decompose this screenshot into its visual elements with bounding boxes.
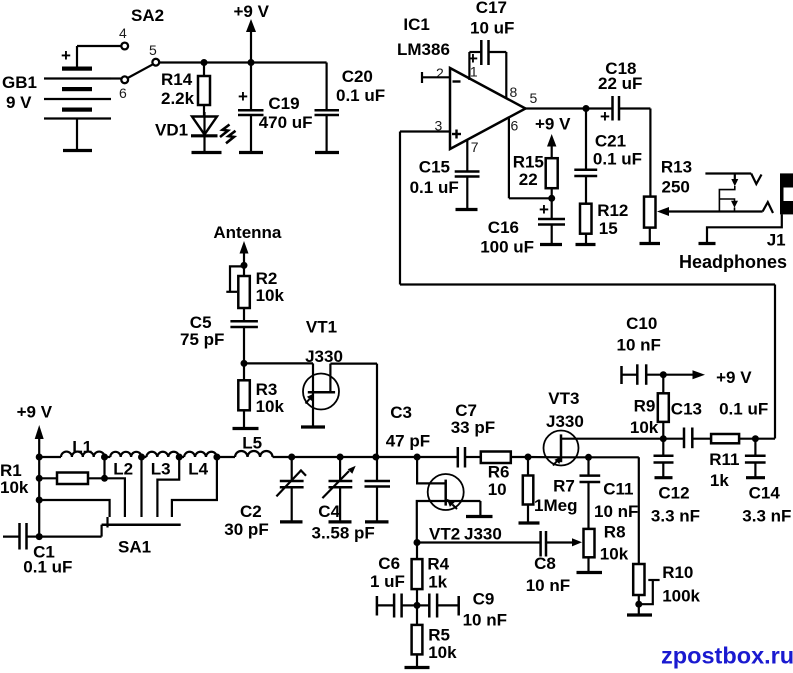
svg-text:1 uF: 1 uF [370,572,405,591]
ground R12 [576,243,596,246]
wire rail C4-C3 [340,456,376,458]
svg-text:22 uF: 22 uF [598,74,642,93]
svg-text:J1: J1 [767,231,786,250]
svg-text:C10: C10 [626,314,657,333]
wire tap1 L1/L2 to SA1 [105,457,125,517]
resistor R11 [709,434,775,490]
ground C16 [540,243,562,246]
wire rail R7-VT3 [528,456,560,458]
capacitor C17 [468,0,514,68]
svg-text:10 nF: 10 nF [594,502,638,521]
node R9 / C13 / C12 [660,435,667,442]
svg-text:470 uF: 470 uF [259,113,313,132]
capacitor C19 [238,63,313,153]
node rail R1 [36,475,43,482]
wire rail C2-C4 [292,456,340,458]
svg-text:22: 22 [519,170,538,189]
pin 2 stub [422,65,450,83]
node tank C3 / VT1 drain [372,454,379,461]
svg-text:5: 5 [149,42,157,58]
svg-text:3..58 pF: 3..58 pF [312,523,375,542]
wire rail VT2-C7 [417,456,458,458]
capacitor C12 [651,439,700,526]
svg-text:250: 250 [662,177,690,196]
capacitor C3 [365,403,431,522]
resistor R6 [481,452,528,499]
+9 V supply arrow left [17,403,53,537]
capacitor C13 [663,400,768,449]
pin 3 wire [400,118,450,134]
ground C2 [280,520,303,523]
resistor R10 [633,457,700,615]
node VT3 source / C11 [585,454,592,461]
node +9V rail top [248,59,255,66]
ground VD1 [192,151,222,154]
svg-text:+9 V: +9 V [716,368,752,387]
svg-text:10 uF: 10 uF [470,19,514,38]
svg-text:C21: C21 [595,132,626,151]
node C10 / R9 [660,371,667,378]
svg-text:J330: J330 [546,412,584,431]
svg-text:2: 2 [436,65,444,81]
svg-text:0.1 uF: 0.1 uF [336,86,385,105]
ground R8 [577,571,603,574]
svg-text:C13: C13 [671,400,702,419]
svg-text:+: + [61,46,71,65]
svg-text:R4: R4 [427,554,449,573]
inductor L1 [39,438,104,458]
node L3/L4 tap [176,454,183,461]
capacitor C5 [180,313,258,363]
node R4 / C6 / C9 / R5 [414,602,421,609]
node tank C2 [288,454,295,461]
svg-text:+: + [539,200,549,219]
svg-text:C16: C16 [488,218,519,237]
svg-text:10 nF: 10 nF [463,611,507,630]
svg-text:C17: C17 [476,0,507,17]
ground C3 [365,520,389,523]
+9 V supply arrow right [663,368,752,387]
svg-text:10k: 10k [630,418,659,437]
capacitor C16 [480,198,565,256]
wire tap2 L2/L3 to SA1 [140,457,142,517]
node IC1 output [583,105,590,112]
wire C1 to SA1 wiper [39,535,101,537]
svg-text:SA1: SA1 [118,537,151,556]
svg-text:VD1: VD1 [155,121,188,140]
svg-text:1k: 1k [710,471,729,490]
headphone jack J1 [679,173,793,272]
inductor L5 [217,434,292,457]
resistor R5 [412,605,458,667]
wire tap3 L3/L4 to SA1 [157,457,179,517]
node R10 bottom [635,601,642,608]
svg-text:J330: J330 [464,525,502,544]
capacitor C11 [580,457,639,529]
svg-text:L2: L2 [113,460,133,479]
svg-text:1Meg: 1Meg [534,496,577,515]
svg-text:R7: R7 [553,476,575,495]
pin 6 lead [509,117,552,198]
node rail tap [36,497,43,504]
svg-text:9 V: 9 V [6,93,32,112]
svg-text:SA2: SA2 [131,6,164,25]
variable capacitor C4 [312,457,375,542]
resistor R4 [412,543,450,606]
capacitor C10 [617,314,664,385]
node L2/L3 tap [138,454,145,461]
svg-text:+: + [600,107,610,126]
resistor R14 [161,63,210,117]
capacitor C1 [3,523,72,576]
capacitor C9 [417,590,507,630]
wire tap rail to SA1 [39,500,109,517]
svg-text:VT2: VT2 [429,525,460,544]
svg-text:VT1: VT1 [306,317,337,336]
svg-text:7: 7 [471,139,479,155]
svg-text:75 pF: 75 pF [180,330,224,349]
capacitor C18 [586,59,650,126]
svg-text:33 pF: 33 pF [451,418,495,437]
svg-text:Headphones: Headphones [679,252,787,272]
svg-text:R12: R12 [597,201,628,220]
ground R10 [627,613,652,616]
svg-text:C3: C3 [390,403,412,422]
svg-text:6: 6 [119,85,127,101]
ground C4 [329,520,352,523]
resistor R15 [513,153,558,199]
svg-text:2.2k: 2.2k [161,89,195,108]
svg-text:C9: C9 [473,590,495,609]
ground C19 [239,151,263,154]
ground C15 [456,208,478,211]
potentiometer R13 [644,158,763,244]
svg-text:10k: 10k [600,544,629,563]
svg-text:100 uF: 100 uF [480,238,534,257]
pin 5 output wire [526,90,587,109]
svg-text:8: 8 [510,84,518,100]
pin 1 lead [469,52,478,80]
svg-text:R5: R5 [428,625,450,644]
svg-text:0.1 uF: 0.1 uF [410,178,459,197]
svg-text:R15: R15 [513,153,544,172]
wire rail C3-VT2 [376,456,417,458]
svg-text:3.3 nF: 3.3 nF [651,507,700,526]
antenna [213,223,282,266]
capacitor C14 [742,439,791,526]
battery GB1 [2,46,111,151]
transistor VT3 J330 [544,389,664,466]
svg-text:R14: R14 [161,70,193,89]
op-amp IC1 LM386 [397,15,526,149]
svg-text:100k: 100k [662,587,700,606]
ground C12 [655,476,673,479]
svg-text:L4: L4 [188,460,208,479]
switch SA2 [119,6,164,101]
inductor L2 [105,452,142,479]
svg-text:10 nF: 10 nF [617,336,661,355]
wire C18 to R13 [649,109,651,197]
wire battery minus to SA2 terminal 6 [111,77,121,79]
svg-text:C14: C14 [749,484,781,503]
svg-text:30 pF: 30 pF [224,520,268,539]
resistor R2 [226,265,284,321]
capacitor C21 [574,109,642,204]
trimmer resistor R8 [584,523,629,573]
svg-text:VT3: VT3 [548,389,579,408]
svg-text:0.1 uF: 0.1 uF [719,400,768,419]
node antenna / R2 [241,262,248,269]
svg-text:LM386: LM386 [397,40,450,59]
svg-text:47 pF: 47 pF [386,432,430,451]
capacitor C7 [451,401,495,468]
svg-text:5: 5 [530,90,538,106]
svg-text:6: 6 [511,118,519,134]
node R15 bottom [548,195,555,202]
svg-text:+9 V: +9 V [535,115,571,134]
LED VD1 [155,112,236,153]
svg-text:C19: C19 [268,94,299,113]
node tank C4 [337,454,344,461]
svg-text:0.1 uF: 0.1 uF [23,557,72,576]
transistor VT2 J330 [417,457,502,544]
svg-text:+9 V: +9 V [234,2,270,21]
node tank VT2 gate [414,454,421,461]
svg-text:4: 4 [119,25,127,41]
svg-text:C7: C7 [455,401,477,420]
svg-text:R8: R8 [604,523,626,542]
svg-text:R10: R10 [662,563,693,582]
svg-text:L3: L3 [151,460,171,479]
wire SA2 to +9V rail [159,61,326,63]
ground R13 [640,242,661,245]
svg-text:IC1: IC1 [403,15,429,34]
svg-text:C8: C8 [534,554,556,573]
svg-text:R11: R11 [709,450,739,469]
capacitor C15 [410,158,480,210]
node rail L1 [36,454,43,461]
transistor VT1 J330 [303,317,343,427]
node L4 end [213,454,220,461]
svg-text:+: + [238,87,248,106]
wire C5 node to VT1 gate [244,362,313,364]
resistor R9 [630,375,669,439]
svg-text:10 nF: 10 nF [526,576,570,595]
svg-text:L5: L5 [242,434,262,453]
node R6 / R7 / VT3 gate [525,454,532,461]
wire pin3 feedback loop [400,132,775,439]
capacitor C6 [370,554,417,618]
ground C14 [746,476,765,479]
node C5 / R3 / VT1 gate [241,360,248,367]
svg-text:C2: C2 [240,502,262,521]
resistor R12 [580,201,628,245]
trimmer capacitor C2 [224,457,306,539]
wire battery plus to SA2 terminal 4 [77,46,121,67]
pin 7 lead [467,139,478,172]
ground C20 [315,151,339,154]
ground R7 [519,521,540,524]
inductor L3 [142,452,180,479]
svg-text:0.1 uF: 0.1 uF [593,150,642,169]
svg-text:C12: C12 [658,484,689,503]
ground VT1 source [301,425,325,428]
svg-text:3.3 nF: 3.3 nF [742,507,791,526]
svg-text:C20: C20 [342,67,373,86]
svg-text:zpostbox.ru: zpostbox.ru [661,643,793,669]
wire VT1 drain to tank [330,364,377,457]
svg-text:Antenna: Antenna [213,223,282,242]
svg-text:10k: 10k [428,643,457,662]
svg-text:C15: C15 [419,158,450,177]
svg-text:C11: C11 [603,480,633,499]
svg-text:R9: R9 [634,397,656,416]
+9 V supply arrow R15 [535,115,571,159]
svg-text:10k: 10k [0,478,29,497]
node R14 top [201,59,208,66]
node rail C1 [36,533,43,540]
ground VT2 drain [466,515,493,518]
svg-text:10: 10 [488,480,507,499]
resistor R7 [523,457,578,523]
pin 8 lead [506,52,517,100]
capacitor C20 [315,63,386,153]
ground R5 [405,666,430,669]
svg-text:R6: R6 [488,462,510,481]
svg-text:1k: 1k [428,573,447,592]
svg-text:C6: C6 [378,554,400,573]
wire VT2 source node [414,539,421,546]
svg-text:GB1: GB1 [2,73,37,92]
capacitor C8 [417,531,582,595]
node R1 right [101,475,108,482]
inductor L4 [179,452,217,479]
node L1/L2 tap [101,454,108,461]
resistor R3 [238,363,284,428]
svg-text:R13: R13 [661,158,692,177]
switch SA1 [102,517,181,556]
svg-text:10k: 10k [256,286,285,305]
svg-text:10k: 10k [256,397,285,416]
ground R3 [233,427,259,430]
svg-text:15: 15 [599,219,618,238]
node R11 / C14 [752,435,759,442]
ground J1 [699,242,716,245]
resistor R1 [0,461,105,497]
svg-text:C4: C4 [318,502,340,521]
wire tap4 L4 end to SA1 [172,457,217,517]
svg-text:+9 V: +9 V [17,403,53,422]
+9 V supply arrow top [234,2,270,63]
